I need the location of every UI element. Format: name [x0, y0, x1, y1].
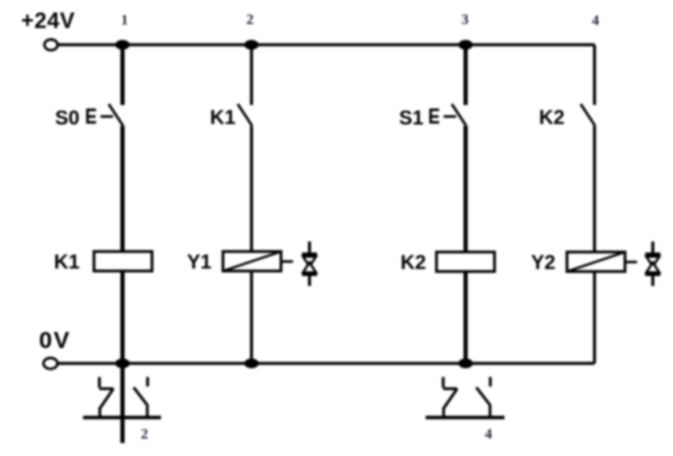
- wire rung 2 upper: [250, 45, 253, 105]
- pushbutton S0: [87, 104, 124, 126]
- svg-text:+24V: +24V: [21, 8, 75, 33]
- wire rung 4 upper: [593, 45, 596, 105]
- terminal +24V: [44, 39, 57, 50]
- junction top rail rung 3: [458, 40, 472, 50]
- svg-text:K2: K2: [401, 252, 427, 274]
- svg-text:K1: K1: [54, 252, 80, 274]
- junction top rail rung 1: [115, 40, 129, 50]
- terminal 0V: [44, 358, 58, 369]
- svg-text:3: 3: [461, 12, 468, 28]
- wire rung 1 middle: [120, 126, 124, 252]
- pushbutton S1: [430, 104, 467, 126]
- suppressor Z1 at Y1: [302, 242, 317, 287]
- wire rung 1 below rail: [120, 363, 124, 443]
- wire Y2 to suppressor: [625, 261, 637, 264]
- relay coil K1: [94, 252, 152, 272]
- wire rung 4 lower: [593, 272, 596, 364]
- svg-text:Y2: Y2: [531, 252, 555, 274]
- svg-text:K1: K1: [210, 107, 236, 129]
- wire rung 2 middle: [250, 126, 253, 252]
- junction bottom rail rung 1: [115, 359, 129, 369]
- solenoid coil Y2: [567, 252, 625, 272]
- svg-text:K2: K2: [539, 107, 565, 129]
- solenoid coil Y1: [223, 252, 281, 272]
- wire Y1 to suppressor: [281, 260, 293, 263]
- svg-text:4: 4: [485, 427, 492, 443]
- svg-text:Y1: Y1: [187, 252, 211, 274]
- wire bottom rail: [58, 362, 595, 365]
- relay contact K2: [581, 104, 595, 126]
- svg-text:S1: S1: [399, 108, 423, 130]
- wire rung 3 upper: [464, 45, 468, 105]
- wire rung 1 lower: [120, 271, 124, 363]
- junction bottom rail rung 2: [244, 359, 258, 369]
- contact cross-reference K2: [426, 377, 505, 418]
- svg-text:S0: S0: [55, 108, 79, 130]
- wire rung 3 middle: [464, 126, 468, 252]
- svg-text:0V: 0V: [39, 327, 71, 353]
- wire top rail: [58, 43, 595, 46]
- svg-text:2: 2: [246, 12, 253, 28]
- svg-text:1: 1: [121, 13, 128, 29]
- wire rung 4 middle: [593, 126, 596, 252]
- wire rung 1 upper: [120, 45, 124, 105]
- relay contact K1: [238, 104, 252, 126]
- wire rung 3 lower: [464, 272, 468, 364]
- svg-text:2: 2: [141, 427, 148, 443]
- junction top rail rung 2: [244, 40, 258, 50]
- junction bottom rail rung 3: [458, 359, 472, 369]
- suppressor Z2 at Y2: [645, 242, 660, 287]
- relay coil K2: [437, 252, 495, 272]
- wire rung 2 lower: [250, 271, 253, 363]
- svg-text:4: 4: [592, 13, 599, 29]
- contact cross-reference K1: [83, 377, 161, 418]
